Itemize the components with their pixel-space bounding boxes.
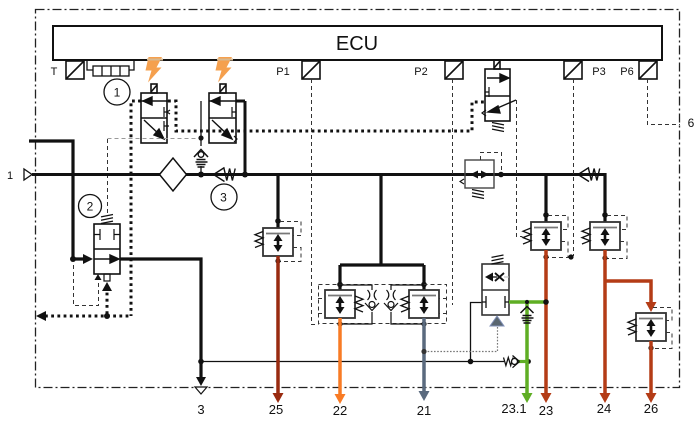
output line from RV2 to port 3 [120,259,201,382]
valve 21 seat line [412,295,436,297]
proportional valve 26 [636,313,666,341]
junction dot green on line 23 [543,299,549,305]
line 22 (orange) [338,318,342,395]
line 21 (slate) [422,318,426,392]
V4 right arrow [481,171,489,179]
RV2 lower flow arrow [94,255,119,263]
valve 26 double arrow [647,319,656,337]
thin dashed pilot: vertical to RV2 spring [107,139,109,214]
V3 upper arrow (flow right) [487,74,509,82]
valve 23.1 pilot triangle [490,316,504,326]
dashed sensor line P6 to node 6 [648,79,681,125]
valve 22 bypass restrictor+check [340,285,379,324]
red branch to valve 26 [605,281,651,302]
junction dot above valve 22 [337,282,343,288]
valve 24 dashed pilots [605,216,627,259]
valve 21 bypass restrictor+check [384,285,424,324]
junction dot pilot tap on line 21 [421,349,426,354]
V4 chevron [460,179,464,184]
junction dot V4 pilot on main line [498,172,504,178]
solenoid valve V1 [141,84,167,143]
valve 23.1 faint stem [504,276,509,278]
junction dot on V2 left line [198,135,203,140]
RV2 exhaust stub [104,274,110,281]
V3 blocked port left [485,87,489,97]
valve 23.1 lower ports [482,296,509,308]
circle label 3 [211,184,237,210]
solenoid valve V2 [209,84,236,143]
arrowhead line 21 [419,391,430,401]
svg-text:24: 24 [597,401,611,416]
junction dot main/245 [242,172,248,178]
dotted pilot branch up to valve RV2 [106,291,109,314]
ECU edge seen through bolts [147,59,233,61]
junction dot above valve 24 [602,212,608,218]
RV2 upper blocked ports [94,229,120,240]
line from valve 23.1 left port down [471,303,483,362]
dashed box around valves 22/21 [319,285,447,324]
svg-text:ECU: ECU [336,33,378,55]
svg-text:1: 1 [114,86,121,100]
spring+check into green line [518,360,527,363]
arrowhead line 24 [600,393,611,403]
arrowhead line 23.1 [522,393,533,403]
valve 25 double arrow [274,234,283,252]
valve 22 spring right [355,296,363,312]
junction dot pilot line [104,313,110,319]
port 1 triangle [24,169,32,180]
wire V2 branch lower [200,166,202,174]
thick feed line top-left [29,141,86,259]
proportional valve 22 [325,290,355,318]
check symbol right on main line near line24 [578,168,600,182]
svg-text:6: 6 [688,116,695,130]
circle label 1 [104,79,130,105]
circle label 2 [79,195,102,218]
svg-text:1: 1 [7,170,13,182]
svg-text:23: 23 [539,403,553,418]
valve 22 seat line [328,295,352,297]
svg-text:3: 3 [220,191,227,205]
dashed pilot from V3 to valve 23 spring [517,100,523,237]
junction dot on line 3 [198,359,204,365]
arrowhead line 22 [335,394,346,404]
arrow down port 3 [196,377,206,386]
supply branch to valve 25 [276,174,279,228]
V2 left branch line (thin) [200,101,202,146]
svg-text:P2: P2 [414,66,427,78]
junction dot above valve 21 [421,282,427,288]
arrowhead line 25 [273,393,284,403]
junction dot on line 23.1 [526,359,531,364]
valve 26 dashed pilots [651,308,672,349]
main supply line [32,173,605,176]
line 24 (red) [603,250,607,394]
junction dot below valve 24 [602,255,607,260]
green line 23.1 [509,302,546,394]
dashed sensor line P2 [452,79,454,305]
check valve with spring into line 23.1 [504,356,520,368]
check valve under V2 (chevron, ball, spring) [194,150,208,168]
pilot dotted line from V1 right port to valve V3 [168,101,484,131]
V2 lower chamber port chevron [234,136,237,142]
V3 spring below [492,123,504,132]
valve 26 seat line [639,318,663,320]
V3 port chevron lower-left [482,110,486,116]
connector T square [66,61,84,79]
RV2 small feedback arrow [95,274,102,280]
svg-text:23.1: 23.1 [501,401,526,416]
valve 23 double arrow [542,228,551,246]
junction dot green tee [525,300,529,304]
valve 25 dashed pilots [280,222,301,262]
connector P2 square [445,61,463,79]
junction dot above valve 25 [275,218,281,224]
supply corner to valve 24 [603,173,606,222]
valve 23.1 arrow stem [493,276,497,278]
line 25 (dark red) [276,256,280,394]
arrowhead into valve 26 [646,302,657,312]
pressure limiter V4 on main line [465,160,494,188]
svg-text:P6: P6 [620,66,633,78]
V3 lower diagonal arrow [488,100,516,113]
valve 23.1 spring top [492,255,504,264]
comb connector [87,61,134,76]
svg-text:22: 22 [333,403,347,418]
overflow valve 23.1 [482,264,509,315]
proportional valve 25 [263,228,293,256]
valve 24 seat line [593,227,617,229]
junction dot below valve 23 [543,254,548,259]
V2 right branch to main line (thick) [236,101,245,174]
pilot dotted line from V1 left port to left exhaust arrow [45,101,141,316]
supply branch to valve 23 [544,174,547,222]
valve 21 double arrow [420,296,429,314]
check symbol on main line (chevron+spring) [214,168,236,182]
svg-text:21: 21 [417,403,431,418]
svg-text:3: 3 [197,402,204,417]
valve 22 double arrow [336,296,345,314]
ECU box [53,26,662,60]
arrow into regulator RV2 [83,254,93,264]
V2 blocked port upper [232,107,236,117]
junction dot valve 21 bypass [421,321,426,326]
V1 blocked port lower [164,121,169,131]
svg-text:T: T [51,66,58,78]
line 23 (red) [544,250,548,394]
connector P6 square [639,61,657,79]
valve 25 seat line [266,233,290,235]
proportional valve 24 [590,222,620,250]
arrowhead line 23 [541,393,552,403]
connector P3 square [564,61,582,79]
proportional valve 23 [531,222,561,250]
V4 dashed pilot loop [481,153,502,173]
lightning bolt over valve V2 [216,57,233,83]
V1 lower diagonal arrow [144,120,164,139]
V2 upper arrow (flow left) [209,97,236,105]
valve 23.1 check arrow + throttle [485,273,493,282]
valve 21 spring left [401,296,409,312]
valve 23 spring left [523,228,531,244]
junction dot above valve 23 [543,212,549,218]
dashed sensor line P3 [573,79,575,256]
valve 24 spring left [582,228,590,244]
valve 23 seat line [534,227,558,229]
svg-text:P3: P3 [592,66,605,78]
valve 23.1 closed throttle cross [495,273,504,281]
svg-text:26: 26 [644,401,658,416]
proportional valve 21 [409,290,439,318]
junction dot P3 tap [568,254,573,259]
svg-text:2: 2 [87,200,94,214]
dashed box side stubs [318,299,447,314]
lightning bolt over valve V1 [146,57,163,83]
exhaust arrow left (dotted pilot) [36,311,46,321]
RV2 dashed feedback loop [74,265,99,306]
solenoid valve V3 [485,60,510,121]
valve 25 spring left [255,232,263,248]
svg-text:P1: P1 [276,66,289,78]
junction dot main/201 [198,172,204,178]
faint dashed feedback line y138 [108,138,201,140]
fine dotted pilot from line 21 [424,327,498,352]
pilot arrow up into valve RV2 [102,282,112,291]
junction dot feed [70,256,76,262]
junction dot below valve 26 [648,345,653,350]
thin collector line y361 [201,361,504,363]
open exhaust triangle port 3 [195,387,207,394]
junction dot below valve 25 [275,258,280,263]
supply branch to valves 22/21 [340,174,424,290]
V1 blocked port upper [164,107,170,117]
pressure regulator valve RV2 [94,224,120,274]
dashed sensor line P1 [312,79,319,325]
connector P1 square [302,61,320,79]
line 26 (red) [649,341,653,394]
arrowhead line 26 [646,393,657,403]
junction dot valve 22 bypass [337,321,342,326]
valve 24 double arrow [601,228,610,246]
valve 26 spring left [628,319,636,335]
filter diamond [160,158,187,191]
valve 23 dashed pilots [546,216,568,258]
RV2 spring top [101,215,113,224]
svg-text:25: 25 [269,402,283,417]
check chevron+spring on green line [521,307,534,324]
V4 spring below [472,190,484,199]
V2 lower diagonal arrow [212,120,232,139]
junction dot at 470 [468,359,474,365]
V4 arrows [470,171,478,179]
V1 upper arrow (flow left) [138,97,170,105]
